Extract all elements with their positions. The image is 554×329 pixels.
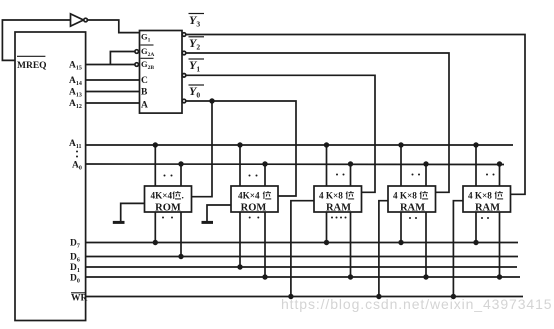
wire chip5 data left to D7 (475, 212, 477, 243)
svg-text:A11: A11 (69, 139, 82, 150)
wire D6 bus (86, 256, 518, 258)
wire D0 bus (86, 276, 520, 278)
junction WR/chip3 (288, 294, 293, 299)
svg-text:4K×4: 4K×4 (238, 191, 260, 201)
junction D6/chip1 (178, 254, 183, 259)
wire chip4 addr left (400, 145, 402, 186)
label chip3 4Kx8 bit RAM (319, 191, 354, 214)
junction A11/chip3 (324, 142, 329, 147)
pin bubble Y3 (182, 33, 186, 37)
svg-text:C: C (141, 76, 148, 86)
svg-text:4 K×8: 4 K×8 (319, 191, 343, 201)
junction WR/chip5 (451, 294, 456, 299)
chip U4 ROM2 body (231, 186, 278, 212)
label chip2 4Kx4 bit ROM (238, 191, 271, 214)
ellipsis dots below chip3 (331, 217, 347, 219)
wire MREQ from CPU left edge (2, 20, 70, 60)
ellipsis dots above chip2 (249, 175, 258, 177)
ground chip2 (202, 221, 214, 224)
junction A0/chip1 (178, 161, 183, 166)
svg-text:RAM: RAM (400, 203, 425, 214)
label MREQ (17, 56, 47, 71)
wire chip5 WR (453, 201, 463, 297)
ground chip1 (113, 221, 125, 224)
wire WR bus (86, 296, 523, 298)
junction D1/chip2 (237, 264, 242, 269)
svg-text:https://blog.csdn.net/weixin_4: https://blog.csdn.net/weixin_43973415 (281, 296, 552, 312)
svg-text:4 K×8: 4 K×8 (468, 191, 492, 201)
wire A13 to B (86, 91, 140, 93)
svg-text:.: . (182, 191, 184, 201)
svg-text:Y1: Y1 (189, 58, 200, 74)
junction D7/chip4 (398, 240, 403, 245)
wire chip1 data left to D7 (154, 212, 156, 243)
wire chip1 addr right (180, 164, 182, 186)
wire chip4 data left to D7 (400, 212, 402, 243)
wire chip2 data right to D0 (264, 212, 266, 277)
wire D1 bus (86, 266, 517, 268)
ellipsis dots above chip1 (164, 175, 173, 177)
wire chip3 data left to D7 (326, 212, 328, 243)
junction Y0/chip1 (209, 98, 214, 103)
svg-text:A15: A15 (69, 61, 82, 72)
junction A11/chip4 (398, 142, 403, 147)
svg-text:MREQ: MREQ (17, 61, 47, 71)
wire chip3 addr right (350, 164, 352, 186)
pin bubble G2A (135, 50, 139, 54)
junction A0/chip5 (497, 161, 502, 166)
wire A12 to A (86, 102, 140, 104)
label Y3 (189, 13, 205, 29)
wire chip3 WR (291, 201, 314, 297)
svg-text:D0: D0 (70, 274, 80, 285)
ellipsis dots above chip5 (486, 174, 495, 176)
svg-text:RAM: RAM (326, 203, 351, 214)
wire A0 bus (86, 163, 504, 166)
pin bubble Y1 (182, 74, 186, 78)
label Y0 (189, 84, 205, 100)
wire chip3 addr left (326, 145, 328, 186)
junction A11/chip5 (473, 142, 478, 147)
svg-text:A14: A14 (69, 76, 82, 87)
junction D7/chip1 (153, 240, 158, 245)
label G2A with overline (141, 45, 155, 58)
svg-text:Y0: Y0 (189, 84, 200, 100)
wire chip5 addr right (499, 164, 501, 186)
label Y1 (189, 58, 205, 74)
svg-text:Y2: Y2 (189, 36, 200, 52)
wire chip5 data right to D0 (499, 212, 501, 277)
wire chip5 addr left (475, 145, 477, 186)
svg-text:Y3: Y3 (189, 13, 200, 29)
junction D7/chip3 (324, 240, 329, 245)
wire D7 bus (86, 242, 518, 244)
wire chip2 addr left (239, 145, 241, 186)
wire branch A15 to G2A (110, 52, 134, 65)
junction A0/chip2 (262, 161, 267, 166)
ellipsis dots below chip1 (162, 217, 173, 219)
wire chip2 data left to D1 (239, 212, 241, 267)
wire chip1 data right to D6 (180, 212, 182, 257)
junction D7/chip5 (473, 240, 478, 245)
decoder U2 (74138) body (140, 31, 183, 114)
wire Y0 branch to chip1 CS (192, 101, 213, 197)
chip U6 RAM2 body (388, 186, 436, 212)
wire chip2 addr right (264, 164, 266, 186)
svg-text:4 K×8: 4 K×8 (393, 191, 417, 201)
wire A14 to C (86, 79, 140, 81)
ellipsis dots above chip4 (412, 174, 421, 176)
junction A11/chip1 (153, 142, 158, 147)
ellipsis dots above chip3 (336, 174, 345, 176)
label WR (71, 293, 88, 304)
wire A11 bus (86, 144, 513, 146)
wire chip4 addr right (425, 164, 427, 186)
ellipsis dots below chip2 (249, 217, 260, 219)
svg-text:ROM: ROM (241, 203, 267, 214)
ellipsis dots below chip4 (409, 217, 417, 219)
svg-text:A13: A13 (69, 88, 82, 99)
svg-text:B: B (141, 88, 148, 98)
junction A11/chip2 (237, 142, 242, 147)
svg-text:WR: WR (71, 294, 88, 304)
wire inverter output to decoder G1 (87, 20, 139, 33)
junction D0/chip4 (423, 274, 428, 279)
junction WR/chip4 (376, 294, 381, 299)
pin bubble Y0 (182, 99, 186, 103)
chip U5 RAM1 body (314, 186, 362, 212)
label chip5 4Kx8 bit RAM (468, 191, 503, 214)
svg-text:4K×4: 4K×4 (151, 191, 173, 201)
pin bubble G2B (135, 63, 139, 67)
wire chip4 WR (379, 201, 388, 297)
svg-text:D7: D7 (70, 239, 80, 250)
svg-text:A12: A12 (69, 99, 82, 110)
label chip4 4Kx8 bit RAM (393, 191, 428, 214)
wire Y2 to chip4 CS (186, 53, 449, 192)
chip U3 ROM1 body (145, 186, 192, 212)
svg-text:A0: A0 (72, 161, 82, 172)
label chip1 4Kx4 bit ROM (151, 191, 184, 214)
wire chip1 addr left (154, 145, 156, 186)
chip U7 RAM3 body (463, 186, 511, 212)
svg-text:RAM: RAM (475, 203, 500, 214)
label Y2 (189, 36, 205, 52)
junction A0/chip4 (423, 161, 428, 166)
label G2B with overline (141, 58, 155, 71)
ellipsis dots CPU address gap (76, 151, 78, 158)
svg-text:A: A (141, 101, 148, 111)
inverter U1 output bubble (84, 18, 88, 22)
CPU block (15, 32, 86, 321)
wire A15 to G2B (86, 64, 135, 66)
wire chip4 data right to D0 (425, 212, 427, 277)
ellipsis dots below chip5 (481, 217, 489, 219)
junction D0/chip3 (348, 274, 353, 279)
inverter U1 (71, 14, 84, 26)
junction A0/chip3 (348, 161, 353, 166)
wire chip2 to ground (207, 205, 231, 222)
wire chip3 data right to D0 (350, 212, 352, 277)
wire Y0 to chip2 CS (186, 101, 296, 196)
wire Y3 to chip5 CS (186, 35, 525, 195)
junction D0/chip2 (262, 274, 267, 279)
wire chip1 to ground (121, 203, 145, 222)
junction D0/chip5 (497, 274, 502, 279)
pin bubble Y2 (182, 51, 186, 55)
wire Y1 to chip3 CS (186, 75, 375, 192)
svg-text:ROM: ROM (155, 203, 181, 214)
